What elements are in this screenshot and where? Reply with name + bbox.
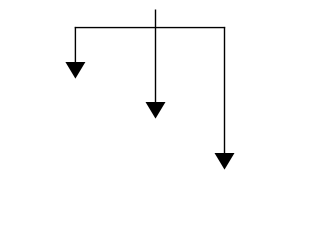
wire left branch bbox=[74, 27, 76, 63]
wire horizontal bus bbox=[75, 27, 226, 29]
arrowhead right bbox=[215, 153, 235, 170]
arrowhead centre bbox=[146, 102, 166, 119]
wire stem (top vertical into junction, continuing down to centre arrow) bbox=[155, 10, 157, 103]
arrowhead left bbox=[65, 62, 85, 79]
wire right branch bbox=[224, 27, 226, 154]
